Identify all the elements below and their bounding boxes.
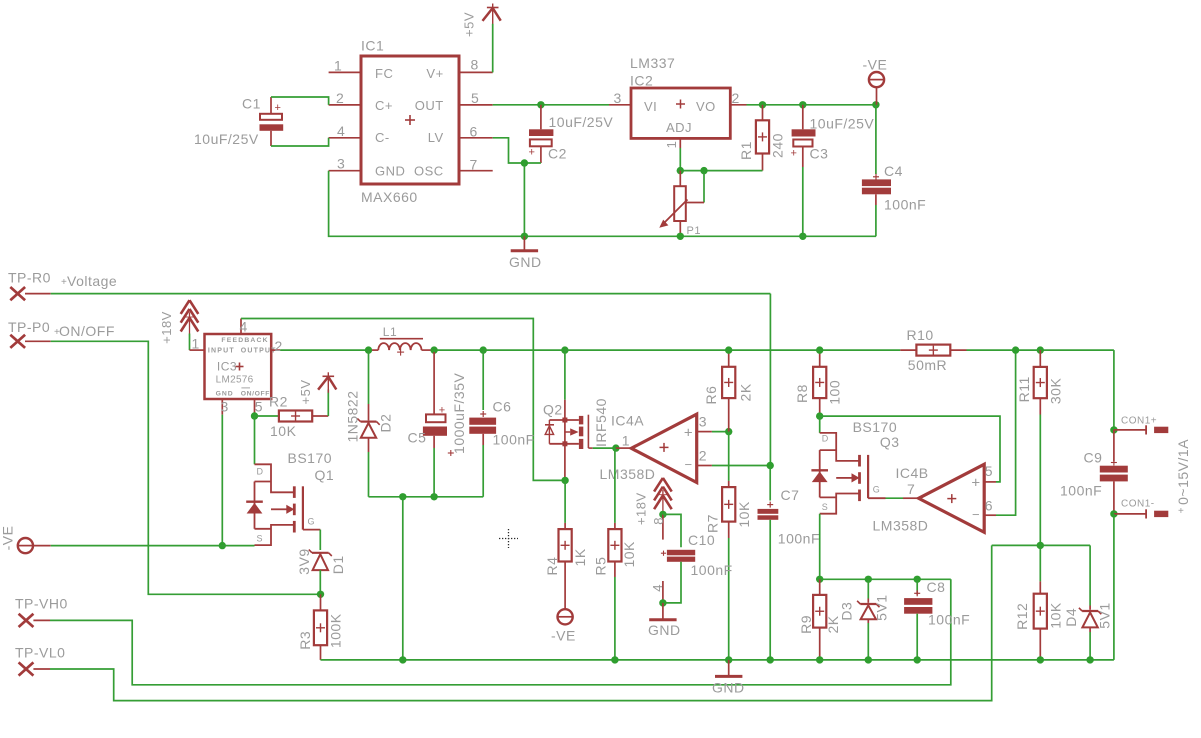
svg-text:+18V: +18V	[159, 311, 174, 344]
svg-text:MAX660: MAX660	[361, 189, 418, 205]
svg-text:D3: D3	[838, 602, 854, 621]
junction Q2 source feedback node	[561, 477, 568, 484]
svg-text:1000uF/35V: 1000uF/35V	[451, 373, 467, 454]
svg-text:R10: R10	[907, 327, 934, 343]
svg-text:R12: R12	[1014, 603, 1030, 630]
zener D1 3V9	[296, 548, 346, 594]
svg-text:+: +	[439, 405, 446, 417]
junction C8 bottom	[914, 656, 921, 663]
zener D3 5V1	[838, 579, 889, 660]
svg-text:BS170: BS170	[288, 450, 333, 466]
junction gnd rail R7	[725, 656, 732, 663]
capacitor C10 100nF	[661, 514, 733, 603]
IC3 pin 2 OUTPUT	[271, 338, 283, 354]
op-amp IC4B LM358D	[873, 463, 997, 533]
svg-text:C3: C3	[810, 146, 829, 162]
wire R8 node to IC4B IN+	[820, 416, 1000, 482]
supply +18V arrow IC4 power	[634, 478, 672, 525]
svg-text:-VE: -VE	[863, 57, 888, 73]
svg-text:IC1: IC1	[361, 38, 384, 54]
svg-text:3: 3	[221, 398, 229, 414]
junction main gnd at x403	[399, 656, 406, 663]
svg-text:3: 3	[614, 90, 622, 106]
junction Voltage C7 node	[767, 462, 774, 469]
svg-text:R5: R5	[592, 557, 608, 576]
IC2 pin 1 ADJ	[664, 138, 680, 148]
svg-text:V+: V+	[426, 66, 443, 81]
resistor R7 10K	[705, 432, 753, 660]
wire +18V node	[662, 511, 664, 514]
inductor L1	[372, 325, 434, 356]
wire +5V to pin8	[492, 24, 494, 73]
svg-text:50mR: 50mR	[908, 357, 947, 373]
svg-text:BS170: BS170	[853, 419, 898, 435]
svg-text:TP-VL0: TP-VL0	[15, 644, 65, 660]
svg-text:L1: L1	[383, 325, 397, 339]
junction C5 bottom rail	[430, 493, 437, 500]
svg-text:2: 2	[336, 90, 344, 106]
svg-text:6: 6	[985, 498, 993, 514]
svg-text:R8: R8	[794, 384, 810, 403]
ground GND right	[712, 660, 745, 695]
IC2 pin 2 VO	[730, 90, 746, 106]
junction Q2 drain top	[561, 346, 568, 353]
svg-text:Voltage: Voltage	[67, 273, 117, 289]
junction R6 top	[725, 346, 732, 353]
svg-text:GND: GND	[712, 679, 745, 695]
svg-text:30K: 30K	[1047, 378, 1063, 405]
wire ON/OFF net	[51, 341, 321, 594]
wire Q3 source down	[819, 514, 821, 580]
svg-text:R2: R2	[269, 394, 288, 410]
svg-text:C9: C9	[1084, 450, 1103, 466]
wire Q3 gate to IC4B out	[886, 497, 904, 499]
svg-text:10uF/25V: 10uF/25V	[194, 131, 259, 147]
svg-text:VO: VO	[696, 99, 716, 114]
wire out node to R6/R8	[565, 349, 900, 351]
wire +18V to IC3 pin1	[189, 334, 191, 351]
svg-text:R4: R4	[544, 557, 560, 576]
IC2 pin 3 VI	[609, 90, 631, 106]
svg-text:C2: C2	[548, 146, 567, 162]
svg-text:+5V: +5V	[462, 12, 477, 37]
IC3 pin 1 INPUT	[190, 336, 205, 352]
capacitor C9 100nF	[1060, 430, 1128, 514]
wire C1 bottom to IC1 pin4	[271, 138, 329, 146]
svg-text:0~15V/1A: 0~15V/1A	[1175, 439, 1191, 505]
wire IN- to R10 right	[996, 350, 1016, 515]
svg-text:5: 5	[255, 398, 263, 414]
svg-text:5V1: 5V1	[1096, 602, 1112, 628]
svg-text:GND: GND	[216, 391, 234, 398]
junction mid rail down	[399, 493, 406, 500]
junction C2 top	[537, 101, 544, 108]
svg-text:G: G	[308, 517, 316, 527]
supply +5V arrow top	[462, 4, 501, 38]
IC1 pin 5 OUT	[459, 90, 493, 106]
wire OUT inductor net	[280, 349, 372, 351]
junction D3 top	[865, 576, 872, 583]
svg-text:GND: GND	[375, 164, 405, 179]
capacitor C8 100nF	[904, 579, 970, 660]
svg-text:Q1: Q1	[315, 467, 335, 483]
svg-text:FC: FC	[375, 66, 393, 81]
svg-text:100nF: 100nF	[1060, 482, 1102, 498]
wire R10 right net	[967, 350, 1114, 430]
buck IC3 LM2576 body	[205, 334, 277, 399]
svg-text:8: 8	[471, 57, 479, 73]
svg-text:3: 3	[699, 413, 707, 429]
junction gnd rail C7	[767, 656, 774, 663]
wire TP-VH0 sense net	[50, 579, 951, 685]
svg-text:1N5822: 1N5822	[345, 390, 361, 442]
svg-text:1: 1	[334, 58, 342, 74]
transistor Q3 BS170	[811, 416, 899, 514]
junction ADJ-P1	[677, 167, 684, 174]
svg-text:LM2576: LM2576	[216, 374, 254, 385]
IC1 pin 8 V+	[459, 57, 493, 73]
svg-text:VI: VI	[644, 99, 657, 114]
junction R11 bottom node	[1037, 542, 1044, 549]
svg-text:100nF: 100nF	[691, 562, 733, 578]
junction pin3 rail	[219, 542, 226, 549]
svg-text:3: 3	[337, 156, 345, 172]
svg-text:100nF: 100nF	[493, 431, 535, 447]
connector CON1+	[1110, 416, 1168, 435]
resistor R11 30K	[1016, 350, 1063, 545]
svg-text:TP-VH0: TP-VH0	[15, 596, 68, 612]
IC4 pin 8 V+	[651, 514, 666, 539]
svg-text:OSC: OSC	[414, 164, 444, 179]
IC1 pin 4 C-	[329, 123, 361, 139]
junction R1 top	[759, 101, 766, 108]
wire Q3 source sense node	[820, 578, 951, 580]
label Voltage	[61, 273, 117, 289]
junction C8 top	[914, 576, 921, 583]
svg-text:R3: R3	[297, 631, 313, 650]
svg-text:R6: R6	[703, 386, 719, 405]
svg-text:C8: C8	[927, 579, 946, 595]
svg-text:OUT: OUT	[415, 98, 444, 113]
junction R8 top	[816, 346, 823, 353]
junction -VE C4 node	[872, 101, 879, 108]
junction ON/OFF R2	[251, 412, 258, 419]
junction R6 R7 node	[725, 428, 732, 435]
wire main gnd rail bottom	[321, 659, 1114, 661]
svg-text:LM358D: LM358D	[873, 517, 929, 533]
svg-text:4: 4	[337, 123, 345, 139]
capacitor C5 1000uF/35V	[408, 350, 467, 497]
svg-text:IC3: IC3	[217, 360, 237, 374]
wire -VE rail to Q1 source	[51, 545, 255, 547]
svg-text:-VE: -VE	[551, 627, 576, 643]
junction +18V pin8 C10	[659, 511, 666, 518]
junction R12 bottom	[1037, 656, 1044, 663]
svg-text:5: 5	[985, 463, 993, 479]
svg-text:R1: R1	[738, 141, 754, 160]
svg-text:Q3: Q3	[880, 434, 900, 450]
svg-text:LM358D: LM358D	[600, 466, 656, 482]
wire VO output net	[747, 104, 876, 106]
svg-text:R7: R7	[705, 514, 721, 533]
svg-text:2: 2	[699, 447, 707, 463]
wire Voltage net	[51, 294, 771, 466]
svg-text:S: S	[822, 502, 829, 512]
capacitor C7 100nF	[758, 466, 821, 660]
svg-text:C7: C7	[781, 487, 800, 503]
transistor Q2 IRF540	[543, 350, 609, 480]
wire down to gnd rail	[523, 163, 525, 236]
zener D4 5V1	[1063, 545, 1112, 660]
IC3 pin 5 ON/OFF	[255, 398, 264, 414]
svg-text:4: 4	[240, 318, 248, 334]
svg-text:10uF/25V: 10uF/25V	[810, 116, 875, 132]
resistor R1 240	[738, 105, 786, 171]
svg-text:7: 7	[470, 157, 478, 173]
svg-text:+: +	[275, 102, 282, 114]
junction C5 top	[430, 346, 437, 353]
op-amp IC4A LM358D	[600, 412, 712, 482]
svg-text:1K: 1K	[572, 548, 588, 566]
testpoint TP-R0	[8, 270, 51, 301]
svg-text:LM337: LM337	[630, 55, 675, 71]
svg-text:100nF: 100nF	[884, 197, 926, 213]
resistor R5 10K	[592, 448, 637, 660]
svg-text:100K: 100K	[327, 613, 343, 648]
IC1 pin 6 LV	[459, 124, 493, 140]
terminal -VE left	[0, 526, 51, 554]
svg-text:D1: D1	[330, 555, 346, 574]
cursor cross	[499, 529, 518, 548]
testpoint TP-VH0	[15, 596, 68, 627]
svg-text:3V9: 3V9	[296, 548, 312, 574]
wire to R2	[255, 415, 279, 417]
resistor R3 100K	[297, 594, 344, 660]
svg-text:1: 1	[664, 141, 679, 149]
svg-text:INPUT: INPUT	[208, 347, 235, 354]
svg-text:C10: C10	[688, 532, 715, 548]
wire out node to Q2	[483, 349, 565, 351]
svg-text:D2: D2	[378, 414, 394, 433]
junction D4 bottom	[1086, 656, 1093, 663]
ground GND middle	[648, 603, 681, 638]
label ON/OFF	[54, 323, 115, 339]
junction D1 R3 node	[317, 591, 324, 598]
svg-text:C-: C-	[375, 130, 390, 145]
svg-text:FEEDBACK: FEEDBACK	[221, 337, 268, 344]
svg-text:100nF: 100nF	[928, 611, 970, 627]
svg-text:R11: R11	[1016, 376, 1032, 402]
junction R9 top	[816, 576, 823, 583]
svg-text:P1: P1	[687, 225, 701, 237]
svg-text:1: 1	[192, 336, 200, 352]
svg-text:100nF: 100nF	[778, 530, 820, 546]
svg-text:C6: C6	[493, 399, 512, 415]
testpoint TP-P0	[8, 319, 51, 348]
svg-text:2K: 2K	[738, 383, 754, 401]
svg-text:GND: GND	[648, 622, 681, 638]
svg-text:C4: C4	[884, 163, 903, 179]
junction LV-C2-GND node	[521, 159, 528, 166]
wire OUT net pin5 to IC2 VI	[493, 104, 609, 106]
junction pin4 gnd	[659, 599, 666, 606]
junction IC4A output	[612, 444, 619, 451]
ground GND top	[509, 236, 542, 270]
wire ADJ node	[680, 148, 762, 171]
wire Q1 gate down	[319, 530, 321, 550]
junction D3 bottom	[865, 656, 872, 663]
svg-text:5V1: 5V1	[874, 594, 890, 620]
wire feedback net	[241, 319, 565, 481]
transistor Q1 BS170	[246, 450, 334, 545]
wire CON1- to gnd rail	[1113, 514, 1115, 660]
svg-text:IC4B: IC4B	[896, 465, 929, 481]
potentiometer P1	[659, 171, 704, 237]
svg-text:240: 240	[770, 133, 786, 158]
svg-text:6: 6	[470, 124, 478, 140]
IC3 pin 4 FEEDBACK	[240, 318, 248, 334]
svg-text:+: +	[529, 147, 536, 159]
wire mid rail to main gnd	[402, 497, 404, 660]
svg-text:+: +	[971, 475, 980, 492]
wire wiper to pot	[703, 171, 705, 203]
svg-text:10K: 10K	[621, 541, 637, 568]
svg-text:10K: 10K	[1047, 602, 1063, 629]
junction gnd rail P1	[677, 233, 684, 240]
svg-text:+: +	[791, 148, 798, 160]
svg-text:+5V: +5V	[298, 380, 313, 405]
supply +18V arrow left	[159, 300, 198, 344]
junction R11 top	[1037, 346, 1044, 353]
junction C6 top	[480, 346, 487, 353]
svg-text:D: D	[257, 467, 264, 477]
wire local gnd rail mid	[369, 496, 484, 498]
diode D2 1N5822	[345, 350, 394, 497]
IC1 pin 3 GND	[329, 156, 361, 172]
capacitor C4 100nF	[862, 105, 926, 237]
capacitor C2	[529, 105, 614, 163]
terminal -VE top	[863, 57, 888, 105]
junction C3 top	[799, 101, 806, 108]
resistor R9 2K	[798, 579, 841, 660]
IC4 pin 4 V-	[650, 581, 665, 603]
IC1 pin 7 OSC	[459, 157, 493, 173]
svg-text:10K: 10K	[736, 501, 752, 528]
junction R5 bottom	[611, 656, 618, 663]
svg-text:CON1-: CON1-	[1121, 498, 1155, 509]
wire L1 to C5 node	[434, 349, 483, 351]
svg-text:D4: D4	[1063, 608, 1079, 627]
svg-text:LV: LV	[428, 130, 444, 145]
wire Q2 gate to IC4A out	[593, 447, 616, 449]
supply +5V arrow R2	[298, 372, 336, 416]
label 0~15V/1A	[1175, 439, 1191, 517]
wire pin3 to -VE rail	[221, 415, 223, 546]
junction C3 bottom	[799, 233, 806, 240]
IC1 pin 2 C+	[329, 90, 361, 106]
svg-text:−: −	[972, 507, 980, 522]
svg-text:+: +	[684, 425, 693, 442]
svg-text:10uF/25V: 10uF/25V	[549, 114, 614, 130]
svg-text:C1: C1	[242, 96, 261, 112]
resistor R10 50mR	[900, 327, 966, 373]
svg-text:C5: C5	[408, 430, 427, 446]
svg-text:R9: R9	[798, 615, 814, 634]
resistor R2 10K	[269, 394, 328, 440]
resistor R12 10K	[1014, 545, 1063, 660]
wire gnd rail top	[329, 171, 876, 237]
junction D2 top	[365, 346, 372, 353]
wire R2 node to Q1 drain	[254, 416, 256, 464]
svg-text:Q2: Q2	[543, 401, 563, 417]
resistor R6 2K	[703, 350, 754, 432]
svg-text:D: D	[822, 433, 829, 443]
junction R10 sense	[1012, 346, 1019, 353]
svg-text:S: S	[257, 534, 264, 544]
testpoint TP-VL0	[15, 644, 65, 675]
svg-text:TP-P0: TP-P0	[8, 319, 50, 335]
svg-text:-VE: -VE	[0, 526, 16, 551]
terminal -VE middle	[551, 609, 576, 643]
svg-text:C+: C+	[375, 98, 393, 113]
IC1 pin 1 FC	[329, 58, 361, 74]
svg-text:CON1+: CON1+	[1121, 416, 1157, 427]
svg-text:1: 1	[622, 432, 630, 448]
wire TP-VL0 sense net	[50, 545, 992, 700]
capacitor C3	[791, 105, 875, 237]
wire IN- to C7 node	[712, 465, 770, 467]
svg-text:100: 100	[827, 380, 843, 405]
svg-text:ON/OFF: ON/OFF	[59, 323, 115, 339]
svg-text:−: −	[684, 457, 692, 472]
IC3 pin 3 GND	[221, 398, 229, 414]
junction R9 bottom	[816, 656, 823, 663]
op IC1 MAX660 body	[361, 38, 459, 206]
regulator IC2 LM337 body	[630, 55, 730, 138]
svg-text:GND: GND	[509, 254, 542, 270]
svg-text:G: G	[873, 484, 881, 494]
svg-text:5: 5	[471, 90, 479, 106]
svg-text:2: 2	[275, 338, 283, 354]
svg-text:7: 7	[907, 481, 915, 497]
wire IN+ to R6/R7 node	[712, 431, 729, 433]
svg-text:+: +	[1178, 506, 1184, 517]
svg-text:IC2: IC2	[630, 73, 653, 89]
svg-text:8: 8	[651, 517, 666, 525]
svg-text:IRF540: IRF540	[593, 398, 609, 447]
svg-text:TP-R0: TP-R0	[8, 270, 51, 286]
svg-text:10K: 10K	[270, 423, 297, 439]
svg-text:+18V: +18V	[634, 492, 649, 525]
svg-text:IC4A: IC4A	[611, 412, 644, 428]
capacitor C1	[194, 96, 283, 148]
capacitor C6 100nF	[469, 350, 534, 497]
connector CON1-	[1110, 498, 1168, 518]
junction gnd rail C2	[521, 233, 528, 240]
svg-text:ON/OFF: ON/OFF	[241, 391, 270, 398]
wire C1 top to IC1 pin2	[271, 97, 329, 105]
resistor R4 1K	[544, 480, 588, 609]
svg-text:2: 2	[732, 90, 740, 106]
wire IC1 pin6 LV to C2 bottom	[493, 138, 541, 163]
svg-text:4: 4	[650, 584, 665, 592]
svg-text:ADJ: ADJ	[666, 120, 692, 135]
resistor R8 100	[794, 350, 843, 416]
junction wiper tap	[700, 167, 707, 174]
wire R11 bottom link	[992, 544, 1090, 546]
junction R8 bottom Q3 drain	[816, 412, 823, 419]
